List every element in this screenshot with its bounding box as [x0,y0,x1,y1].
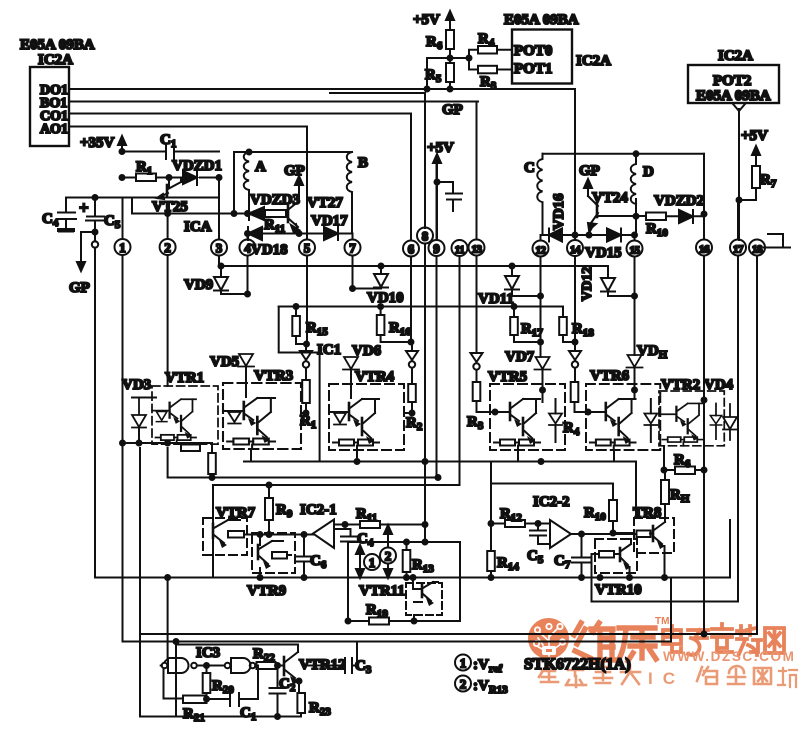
resistor R22 [253,646,284,669]
svg-text:2: 2 [164,240,171,255]
circled 2 VR13 [380,548,396,564]
resistor R1 [122,159,169,181]
pin 2 [160,239,176,255]
wire GP top line [330,92,425,94]
svg-text:VTR4: VTR4 [355,369,395,385]
svg-text:R3: R3 [467,414,484,432]
svg-text:IC2-1: IC2-1 [300,502,337,518]
svg-text:E05A 09BA: E05A 09BA [20,37,95,53]
svg-text:ICA: ICA [184,219,212,235]
wire R5 bypass [427,58,450,89]
resistor R3 [469,66,512,92]
wire rail y634 [140,633,757,635]
node +35V [80,135,126,152]
pin 17 [730,240,746,256]
svg-text:VD4: VD4 [704,377,734,393]
wire DO1 [69,88,575,90]
transistor VT24 [588,190,646,233]
diode VD7 [505,349,551,384]
svg-text:VDH: VDH [637,343,668,361]
junction dots y306 [296,307,575,343]
svg-text:E05A 09BA: E05A 09BA [504,12,579,28]
gate IC3-b [225,658,256,673]
svg-text:11: 11 [455,244,464,256]
GP arrow (left) [69,232,95,296]
pin stubs above/below circles [122,198,124,444]
pin 5 [299,240,315,256]
connector circle on C5 column [92,232,98,577]
svg-text:IC2A: IC2A [718,48,753,64]
svg-text:R3: R3 [480,74,497,92]
node +5V (right) [741,128,768,166]
transistor VT25 [152,178,188,216]
svg-text:VD12: VD12 [580,267,595,301]
wire gate1 feedback loop [161,666,183,699]
resistor R11 (base) [264,210,288,235]
wire col x176 [175,642,177,717]
resistor R6 (top) [426,30,454,52]
transistor group VTR7 [203,505,260,555]
svg-text:14: 14 [570,244,581,256]
resistor R16 [377,307,412,343]
note 2 VR13 [455,676,508,697]
winding D [631,154,654,235]
zener VDZD1 [169,158,222,185]
diode VD16 [549,229,562,242]
svg-text:5: 5 [304,241,311,256]
svg-text:2: 2 [460,677,467,692]
svg-text:C5: C5 [527,548,544,566]
svg-text:2: 2 [385,549,392,564]
wire IC2-2 output [571,534,636,557]
gate IC3-a [162,658,197,673]
capacitor C3 [306,642,372,677]
wire VTR1 bottom [123,442,213,444]
svg-text:A: A [255,159,266,175]
circled 1 Vref [364,554,380,570]
wire A/B left leg [233,152,235,214]
GP arrow (VT27) [284,163,305,189]
watermark dianzishichangwang glyphs [663,624,784,655]
resistor R20 [203,666,235,700]
svg-text:VD16: VD16 [551,193,567,230]
svg-text:STK6722H(1A): STK6722H(1A) [524,656,631,673]
diode VDH [627,343,668,390]
svg-text:R16: R16 [389,320,411,338]
pin 14 [567,240,583,256]
diode VD4 [704,377,737,440]
IC2A POT0/POT1 box [504,12,611,84]
capacitor C7 [554,553,591,578]
watermark slogan [539,665,797,687]
svg-text:AO1: AO1 [40,122,68,137]
connector diode+circle col 574 [569,342,581,382]
resistor R12 [491,506,550,527]
svg-text:VTR5: VTR5 [488,369,527,385]
diode VD18 [248,227,288,258]
svg-text:1: 1 [119,240,126,255]
svg-text:B: B [358,155,368,171]
wire BO1 [69,101,478,103]
capacitor C2 [270,666,296,717]
resistor R14 [487,524,519,578]
pin 15 [627,241,643,257]
capacitor C1 (top) [160,132,176,159]
svg-text:GP: GP [442,102,463,118]
svg-text:VD17: VD17 [311,213,348,229]
svg-text:R13: R13 [412,557,434,575]
transistor group VTR10 [592,539,642,602]
svg-text:VD3: VD3 [122,377,151,393]
svg-text:+: + [79,198,89,217]
svg-text:R10: R10 [646,221,668,239]
svg-text:6: 6 [408,242,415,257]
svg-text:R9: R9 [276,502,293,520]
svg-text:R10: R10 [584,505,606,523]
svg-text:17: 17 [733,244,744,256]
pin 4 [240,240,256,256]
wire A/B top rail [234,151,352,153]
wire +35V rail [122,151,219,153]
wire col x492 [490,462,492,484]
transistor group VTR4 [329,369,404,450]
svg-text:+5V: +5V [741,128,768,144]
svg-text:TM: TM [655,616,669,627]
svg-text:VT27: VT27 [307,195,343,211]
svg-text:VTR10: VTR10 [595,582,642,598]
junction dots xfmr left [168,152,299,234]
svg-text:12: 12 [536,245,547,257]
connector diode+circle col 306 [300,344,312,380]
svg-text:1: 1 [460,656,467,671]
resistor R21 [183,696,207,725]
transistor group VTR2 [659,377,724,446]
svg-text:E05A 09BA: E05A 09BA [696,88,771,104]
wire bus y266 [219,265,608,267]
resistor R4 [469,31,512,54]
junction dots R5/R6 [427,58,469,89]
svg-text:VTR3: VTR3 [254,368,293,384]
svg-text:R6: R6 [426,34,443,52]
transistor group VTR3 [223,368,301,449]
svg-text:R23: R23 [309,700,331,718]
svg-text:POT0: POT0 [514,43,552,59]
wire rail y601 [592,601,739,603]
arrow VR13 [384,525,392,578]
winding A [244,152,266,214]
resistor R4 (VTR6) [563,382,588,438]
IC1 left edge [279,307,320,462]
resistor R7 [739,166,777,200]
svg-text:POT2: POT2 [713,73,751,89]
watermark dzsc logo [528,618,569,659]
wire y213 branch [132,198,249,214]
winding C [524,154,543,235]
diode VD9 [184,266,248,294]
pin 9 [429,240,445,256]
wire CO1 [69,113,411,115]
wire VD18 row [248,233,353,235]
svg-text:VD11: VD11 [478,291,514,307]
resistor R3 (VTR5) [467,382,495,432]
transistor group VTR5 [488,369,565,450]
svg-text:+5V: +5V [427,140,454,156]
svg-text:3: 3 [216,241,223,256]
IC2A (left MCU port) box [20,37,95,146]
capacitor C5 [79,198,121,233]
resistor R5 (top) [425,49,454,89]
wire C/D top rail [543,153,705,155]
junction dots VT25 area [122,152,219,178]
capacitor C4 (electrolytic) [42,198,76,232]
svg-text:R18: R18 [572,321,594,339]
IC2-2 box top [491,484,613,524]
arrow Vref [356,545,364,578]
pin 18 [749,240,765,256]
svg-text:IC2-2: IC2-2 [533,494,570,510]
resistor R18 [559,307,594,343]
diode VD15 [585,229,622,262]
pin 12 [533,241,549,257]
svg-text:IC2A: IC2A [576,53,611,69]
svg-text:+5V: +5V [413,12,440,28]
svg-text:RH: RH [670,487,690,505]
diode VD11 [478,266,541,307]
node +5V (middle) [427,140,454,240]
svg-text:C1: C1 [240,705,256,723]
zener VDZD2 [654,193,704,223]
resistor R2 (VTR4) [404,384,423,433]
IC2A POT2 box (top right) [688,48,779,240]
svg-text:C5: C5 [104,213,121,231]
wire emitter bus y461 [244,461,636,463]
wire to R4/R3 [450,50,469,70]
svg-text:R15: R15 [306,320,328,338]
transistor VTR12 [284,645,346,694]
svg-text::Vref: :Vref [473,657,502,675]
svg-text:VTR11: VTR11 [359,583,405,599]
pin 3 [211,240,227,256]
watermark weiku glyphs [574,623,656,661]
op-amp IC2-1 [260,520,334,549]
resistor R19 [348,602,389,625]
wire rail y477 [168,448,438,478]
wire col x636 [635,462,637,519]
svg-text:VD18: VD18 [251,242,288,258]
transistor group VTR1 [152,370,218,451]
diode VD6 [343,343,382,384]
svg-text:VTR1: VTR1 [165,370,204,386]
resistor R1 (VTR3) [300,380,316,431]
resistor R23 [297,693,331,718]
svg-text:VD9: VD9 [184,277,213,293]
wire bus right leg [729,520,731,578]
resistor R10 (right) [646,213,668,240]
zener VDZD3 [249,192,300,220]
wire col x166 [165,578,168,662]
svg-text:R2: R2 [406,415,423,433]
diode VD3 [122,377,156,443]
svg-text:R14: R14 [497,555,519,573]
svg-text:8: 8 [422,229,429,244]
svg-text:VDZD2: VDZD2 [654,193,704,209]
capacitor bypass at pin9 [437,182,462,211]
pin 6 [403,241,419,257]
wire gates link [197,665,225,667]
resistor R11 (IC2-1) [334,506,425,528]
diode VD10 [353,266,404,306]
transistor group VTR9 [247,533,295,599]
wire rail y577 [95,577,730,579]
resistor R10 (IC2-2) [584,484,632,534]
svg-text:7: 7 [349,241,356,256]
op-amp IC2-2 [550,520,571,548]
capacitor C1 (IC3) [207,666,259,724]
wire rail y542 loop [348,542,460,621]
resistor RH [661,470,690,521]
diode VD12 [580,266,635,301]
wire left col x140 [139,448,141,717]
svg-text:1: 1 [369,555,376,570]
capacitor C6 [297,535,327,578]
svg-text:VD15: VD15 [585,245,622,261]
pin 16 [696,240,712,256]
svg-text:R7: R7 [760,172,777,190]
GP arrow (VT24) [579,163,600,192]
resistor R17 [510,307,543,343]
svg-text:13: 13 [472,244,483,256]
wire rail y484 [213,485,460,578]
wire y197 rail [66,197,219,199]
resistor R13 [403,542,435,578]
svg-text:18: 18 [752,244,763,256]
wire y306 rail [279,306,563,308]
ground stub right of pin 18 [764,234,790,248]
svg-text:VTR6: VTR6 [590,368,630,384]
note 1 Vref [455,655,502,676]
junction dots IC2-1 node [260,535,304,578]
node +5V (top middle) [413,11,454,30]
connector diode+circle col 412 [406,342,418,384]
winding B [347,152,368,234]
svg-text:+35V: +35V [80,135,115,151]
pin 1 [115,239,131,255]
pin 7 [345,240,361,256]
transistor group TR8 [633,505,674,578]
diode VD5 [210,354,254,383]
resistor R6 (lower) [664,452,704,474]
wire VD cols into clusters [246,383,635,402]
transistor group VTR11 [359,578,442,622]
svg-text::VR13: :VR13 [473,678,508,696]
wire VD15/VD16 row [543,234,635,236]
resistor below VTR1 [208,443,216,478]
svg-text:R21: R21 [183,706,205,724]
wire rail y641 [123,443,672,642]
svg-text:GP: GP [284,163,305,179]
svg-text:GP: GP [579,163,600,179]
svg-text:IC1: IC1 [317,342,341,358]
svg-text:C7: C7 [554,553,571,571]
pin 11 [452,240,468,256]
svg-text:D: D [643,164,654,180]
resistor R9 [265,485,293,535]
svg-text:IC3: IC3 [196,645,220,661]
wire AO1 [69,126,307,128]
pin 13 [469,240,485,256]
svg-text:VTR9: VTR9 [247,583,286,599]
svg-text:VD7: VD7 [505,349,535,365]
wire GP vertical to pin8 [424,93,426,228]
svg-text:WWW.DZSC.COM: WWW.DZSC.COM [663,649,795,664]
wire bottom rail [140,716,301,718]
svg-text:R11: R11 [264,217,285,235]
svg-text:9: 9 [433,241,440,256]
svg-text:C: C [524,160,535,176]
junction dots xfmr right [575,154,704,235]
wire VTR2 to R6 [663,446,665,470]
transistor VT27 [288,189,343,234]
svg-text:IC2A: IC2A [38,52,73,68]
connector diode+circle col 477 [471,352,483,382]
wire pin16 top leg [703,154,705,214]
diode VD17 [311,213,348,240]
capacitor C4 (IC2-1) [334,529,374,549]
resistor R15 [292,307,328,345]
svg-text:GP: GP [69,280,90,296]
svg-text:VD5: VD5 [210,354,239,370]
capacitor C5 (IC2-2) [527,524,550,567]
svg-text:15: 15 [630,245,641,257]
wire VTR12 collector rail [176,644,298,646]
svg-text:16: 16 [699,244,710,256]
transistor group VTR6 [586,368,660,450]
junction dots diode row [221,266,635,296]
svg-text:VD10: VD10 [367,290,404,306]
svg-text:IC: IC [648,669,685,688]
pin 8 [417,228,433,244]
svg-text:R12: R12 [500,506,522,524]
svg-text:POT1: POT1 [514,61,552,77]
